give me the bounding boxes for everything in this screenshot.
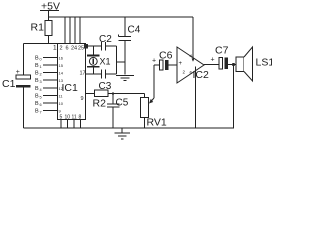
pin 1 [53, 45, 57, 52]
svg-text:B: B [35, 109, 39, 115]
wire IC1 top pin d [79, 17, 81, 43]
node B0 [35, 56, 42, 62]
svg-text:C7: C7 [215, 45, 229, 57]
svg-text:13: 13 [59, 78, 64, 83]
svg-text:0: 0 [40, 58, 42, 62]
capacitor C4 [118, 35, 120, 37]
pin number 10 [59, 101, 64, 106]
node B2 [35, 71, 42, 77]
wire IC1 top pin b [69, 17, 71, 43]
pin number 14 [59, 71, 64, 76]
node B3 [35, 78, 42, 84]
node B7 [35, 109, 42, 115]
wire top supply rail [49, 16, 194, 18]
node B4 [35, 86, 42, 92]
node B1 [35, 63, 42, 69]
capacitor C1 [2, 78, 16, 90]
wire input row 6 [43, 102, 58, 104]
svg-text:B: B [35, 78, 39, 84]
wire C1 top lead [23, 44, 25, 76]
pin number 9 [59, 109, 62, 114]
svg-text:R2: R2 [93, 98, 107, 110]
wire input row 3 [43, 79, 58, 81]
svg-text:RV1: RV1 [147, 117, 167, 129]
svg-text:C1: C1 [2, 78, 16, 90]
wire RV1 wiper arrow [151, 98, 154, 102]
wire bottom ground rail [24, 127, 235, 129]
svg-text:9: 9 [81, 96, 84, 102]
capacitor C5 [107, 103, 120, 105]
wire R2 to RV1 [108, 93, 145, 95]
wire C4 bottom lead [124, 41, 126, 75]
capacitor C3 [101, 70, 103, 79]
wire C1 bottom lead [23, 88, 25, 129]
svg-text:B: B [35, 101, 39, 107]
pin number 15 [59, 63, 64, 68]
svg-text:B: B [35, 63, 39, 69]
svg-text:2: 2 [60, 46, 63, 52]
pin number 25 [78, 46, 84, 52]
svg-text:3: 3 [40, 80, 42, 84]
wire IC1 bottom pin b [67, 120, 69, 129]
pin number 16 [59, 56, 64, 61]
node +5V terminal bar [40, 10, 59, 12]
svg-text:17: 17 [80, 71, 86, 77]
svg-text:25: 25 [78, 46, 84, 52]
wire oscillator to ground branch [117, 61, 126, 63]
wire IC1 top pin a [64, 17, 66, 43]
svg-text:5: 5 [60, 115, 63, 121]
wire +5V stem [48, 11, 50, 21]
svg-text:C5: C5 [116, 98, 129, 109]
wire IC2 power [192, 17, 194, 61]
resistor R2 [95, 90, 109, 97]
wire RV1 top lead [144, 94, 146, 98]
pin number 5 [60, 115, 63, 121]
wire input row 5 [43, 94, 58, 96]
wire RV1 wiper riser [153, 65, 155, 98]
wire speaker to ground rail [233, 65, 235, 129]
wire input row 0 [43, 57, 58, 59]
pin number 8 [79, 115, 82, 121]
wire oscillator right side [116, 46, 118, 74]
potentiometer RV1 [141, 98, 149, 118]
wire C6 to IC2 [169, 64, 178, 66]
wire R1 bottom lead [48, 36, 50, 44]
node speaker junction [232, 63, 235, 66]
pin number 12 [59, 86, 64, 91]
wire input row 1 [43, 64, 58, 66]
wire IC1 pin9 to R2 [86, 93, 95, 95]
svg-text:14: 14 [59, 71, 64, 76]
svg-text:+: + [179, 61, 183, 67]
svg-text:C4: C4 [128, 25, 141, 36]
wire C5 top lead [112, 94, 114, 105]
svg-text:IC2: IC2 [193, 69, 210, 81]
svg-text:10: 10 [65, 115, 71, 121]
pin number 2 [60, 46, 63, 52]
wire IC2 output [204, 64, 219, 66]
svg-text:11: 11 [72, 115, 77, 121]
pin number 24 [71, 46, 77, 52]
svg-text:11: 11 [59, 93, 64, 98]
wire C7 to LS1 [228, 64, 236, 66]
capacitor C6 [152, 58, 156, 65]
svg-text:+: + [211, 57, 215, 64]
op-amp U IC1 body [58, 44, 86, 120]
pin number 13 [59, 78, 64, 83]
node B5 [35, 93, 42, 99]
svg-text:6: 6 [40, 103, 42, 107]
node B6 [35, 101, 42, 107]
wire C5 bottom lead [112, 107, 114, 128]
pin number 10b [65, 115, 71, 121]
svg-text:B: B [35, 71, 39, 77]
ground symbol osc [116, 75, 134, 77]
resistor R1 [45, 21, 52, 36]
wire input row 4 [43, 87, 58, 89]
wire wiper to C6 [154, 64, 160, 66]
svg-text:15: 15 [59, 63, 64, 68]
pin number 11b [72, 115, 77, 121]
svg-text:2: 2 [40, 73, 42, 77]
pin 17 [80, 71, 86, 77]
wire IC1 bottom pin a [60, 120, 62, 129]
svg-text:6: 6 [66, 46, 69, 52]
capacitor C2 [101, 42, 103, 51]
svg-text:9: 9 [59, 109, 62, 114]
pin number 6 [66, 46, 69, 52]
svg-text:8: 8 [79, 115, 82, 121]
svg-text:X1: X1 [100, 57, 111, 67]
svg-text:24: 24 [71, 46, 77, 52]
node +5V label [41, 1, 60, 13]
svg-text:1: 1 [53, 45, 57, 52]
svg-text:16: 16 [59, 56, 64, 61]
svg-text:R1: R1 [31, 22, 45, 34]
ground symbol [121, 128, 123, 133]
svg-text:B: B [35, 56, 39, 62]
svg-text:12: 12 [59, 86, 64, 91]
svg-text:4: 4 [40, 88, 42, 92]
wire input row 2 [43, 72, 58, 74]
wire C4 top lead [124, 17, 126, 37]
wire IC2 ground [195, 67, 197, 129]
wire node to IC1 pin1 [24, 43, 58, 45]
svg-text:C2: C2 [99, 34, 112, 45]
svg-text:LS1: LS1 [256, 57, 273, 69]
svg-text:B: B [35, 93, 39, 99]
svg-text:10: 10 [59, 101, 64, 106]
wire oscillator bottom [86, 73, 102, 75]
node R2 C5 junction [112, 92, 114, 94]
wire RV1 bottom lead [144, 118, 146, 129]
wire IC1 top pin c [74, 17, 76, 43]
wire oscillator top [86, 45, 102, 47]
svg-text:7: 7 [40, 111, 42, 115]
svg-text:1: 1 [40, 65, 42, 69]
crystal X1 [93, 46, 95, 56]
pin number 9b [81, 96, 84, 102]
wire input row 7 [43, 110, 58, 112]
speaker LS1 [236, 57, 244, 72]
svg-text:+: + [152, 58, 156, 65]
svg-text:5: 5 [40, 95, 42, 99]
wire IC1 bottom pin c [73, 120, 75, 129]
svg-text:IC1: IC1 [62, 82, 79, 94]
capacitor C7 [215, 45, 229, 57]
wire IC1 bottom pin d [80, 120, 82, 129]
pin number 11 [59, 93, 64, 98]
pin 26 corner mark [84, 44, 88, 49]
svg-text:B: B [35, 86, 39, 92]
op-amp IC2 [177, 47, 204, 83]
